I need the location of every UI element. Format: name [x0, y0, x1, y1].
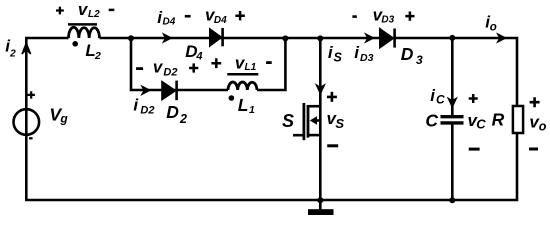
wire D2 branch: down from node A and across to L1 — [131, 38, 228, 90]
svg-text:D4: D4 — [214, 15, 227, 26]
label D3 — [401, 44, 423, 67]
svg-text:D4: D4 — [163, 17, 176, 28]
svg-text:S: S — [335, 116, 344, 131]
diode D2 — [162, 81, 177, 101]
current arrow io — [498, 34, 506, 42]
label i2 — [5, 37, 16, 60]
svg-text:D3: D3 — [381, 15, 394, 26]
current arrow i2 — [22, 43, 31, 54]
svg-text:L1: L1 — [245, 62, 257, 73]
svg-text:4: 4 — [195, 51, 202, 63]
wire top rail left of L2, left vertical, bottom rail, right vertical below resistor — [26, 38, 517, 200]
wire MOSFET branch vertical — [319, 38, 322, 200]
current arrow iC — [448, 98, 456, 107]
diode D4 — [210, 28, 223, 46]
label Vg polarity - — [29, 137, 33, 139]
label iD3 — [354, 43, 373, 64]
svg-text:S: S — [282, 111, 294, 131]
junction node B: L1 branch to top rail — [282, 35, 288, 41]
junction node F: ground — [317, 197, 323, 203]
label iC — [430, 86, 445, 107]
svg-text:2: 2 — [9, 49, 16, 60]
current arrow iD2 — [142, 86, 150, 94]
svg-text:2: 2 — [179, 112, 187, 126]
svg-text:2: 2 — [94, 50, 101, 62]
svg-text:1: 1 — [249, 104, 255, 116]
label iD4 — [157, 8, 176, 28]
wire L1 branch: right of L1 and up to top rail — [257, 38, 285, 90]
svg-text:D2: D2 — [163, 66, 177, 78]
label iD2 — [133, 96, 154, 117]
svg-text:S: S — [334, 50, 343, 64]
junction node E: capacitor bottom — [449, 197, 455, 203]
label vD3 with polarity — [352, 5, 414, 25]
label iS — [328, 43, 343, 64]
junction node A after L2 — [128, 35, 134, 41]
ground — [308, 200, 334, 215]
svg-text:C: C — [425, 111, 438, 131]
current arrow iD3 — [366, 34, 374, 42]
label vS with polarity — [327, 92, 345, 146]
svg-text:o: o — [490, 22, 497, 34]
svg-text:C: C — [436, 93, 445, 107]
label Vg polarity + — [28, 91, 35, 98]
svg-text:3: 3 — [416, 53, 423, 67]
inductor L1 — [227, 74, 258, 101]
current arrow iD4 — [164, 34, 172, 42]
svg-text:D3: D3 — [360, 52, 374, 64]
label vL2 with polarity — [56, 0, 114, 20]
voltage source Vg — [13, 109, 39, 135]
svg-text:o: o — [539, 119, 547, 133]
current arrow iS — [316, 85, 324, 94]
label vD4 with polarity — [185, 6, 245, 26]
svg-text:g: g — [59, 112, 68, 126]
svg-text:v: v — [153, 58, 164, 77]
junction node D: capacitor top — [449, 35, 455, 41]
wire top rail right of L2 to top-right corner down to resistor — [100, 38, 518, 106]
svg-text:R: R — [492, 109, 505, 129]
svg-text:D2: D2 — [140, 105, 154, 117]
svg-text:D: D — [166, 102, 179, 122]
svg-text:L: L — [238, 95, 249, 115]
inductor L2 — [68, 24, 100, 46]
junction node C: MOSFET branch — [317, 35, 323, 41]
label Vg — [49, 105, 68, 126]
svg-text:D: D — [401, 44, 414, 64]
label D2 — [166, 102, 187, 126]
transistor S (MOSFET) — [293, 103, 320, 140]
label io — [485, 12, 496, 33]
label vo with polarity — [529, 97, 547, 149]
label D4 — [185, 42, 202, 63]
capacitor C plates — [441, 117, 464, 123]
label vC with polarity — [468, 94, 487, 149]
wire capacitor branch upper — [451, 38, 454, 115]
label vL1 with polarity — [211, 54, 271, 73]
resistor R — [513, 106, 523, 133]
label L1 — [238, 95, 255, 116]
diode D3 — [380, 29, 395, 48]
label L2 — [85, 41, 101, 62]
svg-text:C: C — [476, 116, 486, 131]
wire capacitor branch lower — [451, 124, 454, 200]
svg-text:L2: L2 — [88, 9, 100, 20]
label vD2 with polarity — [136, 58, 198, 79]
